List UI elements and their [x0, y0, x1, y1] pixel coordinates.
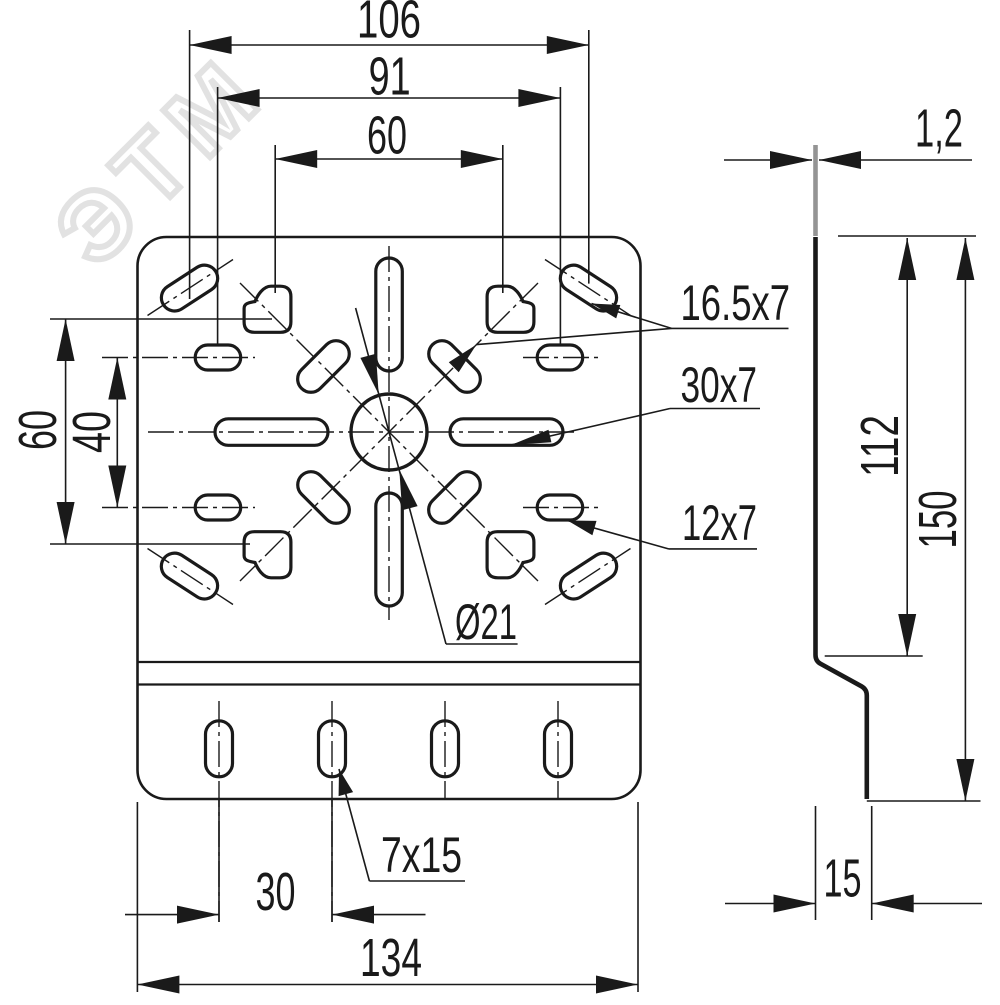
centerline diagonal TR-BL: [240, 283, 538, 581]
centerline 12x7 upper-right: [523, 357, 602, 359]
centerline corner slot top-right: [545, 260, 631, 316]
svg-text:1,2: 1,2: [915, 99, 963, 159]
plate front view outline: [138, 237, 641, 799]
slot 16.5x7 corner bottom-right: [555, 548, 621, 604]
dim 91: extension lines: [217, 87, 219, 344]
keyhole opening bottom-left: [244, 532, 291, 578]
leader 30x7: [511, 409, 670, 446]
svg-text:134: 134: [360, 928, 422, 988]
leader D21 through circle: [356, 308, 446, 644]
dim 134: dimension line: [137, 984, 638, 986]
slot 12x7 upper-left: [195, 345, 241, 370]
slot 16.5x7 inner lower-left: [292, 466, 355, 529]
slot 7x15 bottom #2: [319, 721, 346, 777]
dim 40 left: dimension line: [116, 358, 118, 508]
dim 15: extension lines: [815, 806, 817, 920]
dim 150: bottom reference line: [867, 800, 981, 802]
bend line upper: [138, 661, 641, 663]
dim 60 left: dimension line: [65, 319, 67, 544]
centerline bottom slot #3: [444, 701, 446, 799]
centerline 12x7 lower-right: [523, 507, 602, 509]
centerline 12x7 upper-left / ext of dim 40: [102, 357, 255, 359]
dim 150: dimension line: [964, 238, 966, 801]
centerline corner slot top-left: [148, 260, 234, 316]
dim 91: dimension line: [218, 97, 561, 99]
dim 134: extension lines: [136, 802, 138, 992]
slot 16.5x7 inner upper-left: [292, 335, 355, 398]
dim 106: dimension line: [190, 44, 589, 46]
dim 106: extension lines: [189, 30, 191, 299]
keyhole opening top-left: [244, 286, 291, 332]
slot 16.5x7 inner lower-right: [423, 466, 486, 529]
side view: plate profile: [816, 237, 867, 799]
side top reference line: [838, 235, 976, 237]
dim 30 bottom: extension lines: [218, 800, 220, 922]
slot 12x7 lower-right: [537, 495, 583, 520]
slot 12x7 lower-left: [195, 495, 241, 520]
slot 30x7 left: [215, 419, 328, 446]
slot 16.5x7 corner bottom-left: [156, 548, 222, 604]
center hole D21: [351, 394, 427, 470]
slot 7x15 bottom #4: [545, 721, 572, 777]
svg-text:16.5x7: 16.5x7: [681, 275, 791, 331]
centerline diagonal TL-BR: [240, 283, 538, 581]
leader 12x7: [568, 521, 669, 549]
svg-text:7x15: 7x15: [381, 827, 462, 883]
svg-text:Ø21: Ø21: [455, 594, 517, 650]
dim 15: dimension lines: [725, 903, 816, 905]
centerline bottom slot #1: [218, 701, 220, 922]
svg-text:30: 30: [256, 862, 296, 922]
side view: thickness extension (thin gray): [813, 145, 818, 236]
keyhole opening top-right: [487, 286, 534, 332]
svg-text:60: 60: [367, 106, 407, 166]
slot 7x15 bottom #3: [432, 721, 459, 777]
svg-text:106: 106: [357, 0, 421, 50]
slot 7x15 bottom #1: [206, 721, 233, 777]
svg-text:30x7: 30x7: [681, 357, 758, 413]
slot 30x7 bottom: [376, 493, 403, 606]
centerline bottom slot #4: [557, 701, 559, 799]
svg-text:150: 150: [908, 491, 968, 549]
slot 30x7 top: [376, 258, 403, 371]
svg-text:12x7: 12x7: [682, 495, 757, 551]
svg-text:112: 112: [850, 415, 910, 477]
dim 112: reference line: [825, 655, 923, 657]
svg-text:60: 60: [8, 410, 68, 450]
slot 12x7 upper-right: [537, 345, 583, 370]
svg-text:15: 15: [824, 849, 862, 909]
watermark: [35, 34, 287, 286]
leader 16.5x7 to corner slot: [592, 304, 672, 329]
svg-text:40: 40: [62, 411, 122, 453]
dim 60 left: extension lines: [50, 318, 272, 320]
leader 7x15: [339, 769, 369, 881]
centerline corner slot bottom-left: [148, 549, 234, 605]
leader 16.5x7 to inner slot: [476, 328, 671, 344]
slot 16.5x7 corner top-left: [156, 260, 222, 316]
centerline corner slot bottom-right: [545, 549, 631, 605]
slot 16.5x7 inner upper-right: [423, 335, 486, 398]
bend line lower: [138, 683, 641, 685]
centerline horizontal: [148, 431, 578, 433]
centerline bottom slot #2: [331, 701, 333, 922]
dim 60 top: extension lines: [274, 145, 276, 293]
centerline vertical: [388, 246, 390, 620]
centerline 12x7 lower-left / ext of dim 40: [102, 507, 255, 509]
dim 1,2: dimension lines: [724, 159, 812, 161]
dim 60 top: dimension line: [275, 158, 503, 160]
slot 16.5x7 corner top-right: [555, 260, 621, 316]
slot 30x7 right: [450, 419, 563, 446]
svg-text:91: 91: [369, 47, 411, 107]
keyhole opening bottom-right: [487, 532, 534, 578]
dim 30 bottom: dimension line: [125, 914, 219, 916]
dim 112: dimension line: [906, 238, 908, 656]
